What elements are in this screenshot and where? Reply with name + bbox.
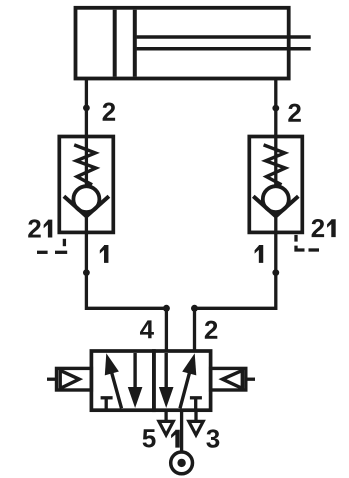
left box blocked port 5 T bar [101,396,113,399]
left pneumatic pilot box [57,368,92,390]
node dot below left check valve [83,269,90,276]
exhaust triangle port 3 [189,421,203,435]
exhaust stub port 5 [164,410,167,421]
check valve left ball [73,186,99,212]
label 1 pressure port digit 1 [171,430,180,448]
left pilot dashed line horizontal dash b [37,251,48,254]
5/2 valve right position box [154,351,211,410]
right pneumatic pilot box [211,368,246,390]
left pilot dashed line vertical dash [63,239,66,246]
check valve left body [59,137,113,233]
cylinder piston line 2 [133,10,137,77]
right box arrow 4 to 5 head [159,387,174,408]
check valve right body [249,137,302,233]
node dot left cylinder port [83,105,90,112]
check valve right ball [263,186,289,212]
label 2 left cylinder port digit 2 [103,103,116,121]
node dot right cylinder port [272,105,279,112]
node dot below right check valve [272,269,279,276]
right pilot dashed line vertical dash [294,235,297,242]
cylinder piston line 1 [113,10,117,77]
cylinder body [76,8,289,79]
compressed air source inner dot [177,459,185,467]
left pilot dashed line horizontal dash a [55,251,67,254]
wire port 1 to source [180,410,183,453]
label 21 left valve digit 2 [28,219,41,237]
compressed air source outer circle [171,452,193,474]
cylinder piston rod bottom line [137,47,311,51]
right box blocked port 3 T bar [190,396,202,399]
label 1 left valve digit 1 [100,245,109,263]
label 3 exhaust port digit 3 [206,429,219,447]
label 21 left valve digit 1 [44,220,53,238]
label 21 right valve digit 2 [312,219,325,237]
label 2 right cylinder port digit 2 [288,104,301,122]
exhaust triangle port 5 [159,421,173,435]
check valve right seat [253,196,298,216]
label 4 valve port digit 4 [140,320,154,338]
label 21 right valve digit 1 [327,219,336,237]
check valve left spring [74,145,96,185]
right pilot dashed line horizontal dash [309,248,320,251]
label 2 valve port digit 2 [205,321,218,339]
left box arrow 2 to 3 head [128,387,143,408]
left box blocked port 5 T stub [105,398,108,410]
left box arrow 1 to 4 head [105,353,119,375]
wire right branch: cylinder right port down, across, to valve port 2 [195,79,276,352]
cylinder piston rod top line [137,35,311,39]
right box arrow 1 to 2 head [182,353,196,375]
wire left branch: cylinder left port down, across, to valve port 4 [86,79,166,352]
left pilot stub [47,378,57,381]
right box blocked port 3 T stub [194,398,197,410]
label 5 exhaust port digit 5 [143,429,156,447]
right pilot stub [246,378,255,381]
right box arrow 4 to 5 shaft [164,353,167,396]
exhaust stub port 3 [194,410,197,421]
left box arrow 2 to 3 shaft [133,353,136,396]
label 1 right valve digit 1 [255,245,264,263]
check valve right spring [264,145,286,185]
5/2 valve left position box [91,351,153,410]
right pilot dashed line corner dash [296,246,305,250]
right box arrow 1 to 2 shaft [180,365,192,409]
node dot junction to valve port 4 [163,305,170,312]
left pilot triangle [60,370,79,388]
check valve left seat [64,196,109,216]
node dot junction to valve port 2 [191,305,198,312]
left box arrow 1 to 4 shaft [110,365,122,409]
right pilot triangle [223,370,243,388]
